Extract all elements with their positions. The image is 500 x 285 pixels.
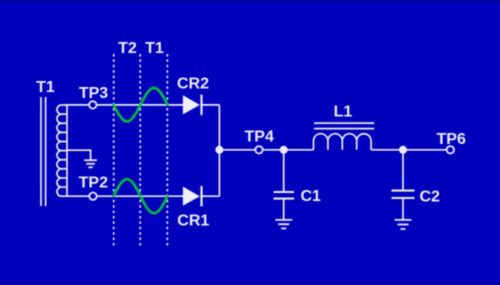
diode CR2 [183, 95, 202, 116]
bottom border edge [0, 284, 500, 285]
ground center tap [84, 160, 97, 167]
dashed line T2 window left [113, 54, 115, 246]
dashed line T2/T1 window middle [139, 54, 141, 246]
svg-text:TP6: TP6 [437, 131, 466, 148]
svg-text:C1: C1 [301, 188, 322, 205]
wire rectifier output bus [218, 105, 220, 196]
node TP3 circle [89, 101, 96, 108]
transformer T1 core [41, 97, 46, 206]
capacitor C1 plates [274, 192, 295, 199]
inductor L1 core bars [314, 123, 374, 129]
wire CR2 cathode to bus [201, 104, 219, 106]
svg-text:CR2: CR2 [177, 76, 209, 93]
node TP4 circle [255, 146, 262, 153]
ground C2 [395, 220, 412, 229]
node TP6 circle [447, 146, 454, 153]
wire C1 stem [283, 150, 285, 191]
transformer T1 secondary winding [57, 105, 67, 196]
svg-text:TP3: TP3 [79, 85, 108, 102]
top border edge [0, 0, 500, 1]
svg-text:TP4: TP4 [245, 129, 274, 146]
svg-text:T2: T2 [118, 40, 137, 57]
node TP2 circle [89, 193, 96, 200]
wire center tap [67, 150, 91, 159]
svg-text:L1: L1 [334, 103, 353, 120]
svg-text:CR1: CR1 [177, 213, 209, 230]
wire bottom secondary to CR1 [65, 195, 184, 197]
sine wave top (TP3) [114, 88, 168, 121]
svg-text:T1: T1 [36, 79, 55, 96]
svg-text:TP2: TP2 [79, 175, 108, 192]
svg-text:T1: T1 [145, 40, 164, 57]
wire bus to inductor [219, 149, 313, 151]
inductor L1 coil [314, 134, 372, 150]
capacitor C2 plates [392, 191, 415, 198]
sine wave bottom (TP2) [114, 179, 168, 213]
wire top secondary to CR2 [65, 104, 184, 106]
wire inductor to TP6 [371, 149, 447, 151]
ground C1 [275, 220, 292, 229]
junction dot rectifier output [215, 146, 223, 154]
junction node C2 tap [399, 146, 407, 154]
diode CR1 [183, 186, 202, 207]
junction node C1 tap [280, 146, 288, 154]
dashed line T1 window right [166, 54, 168, 246]
svg-text:C2: C2 [420, 188, 441, 205]
wire C2 stem [402, 150, 404, 190]
wire CR1 cathode to bus [201, 195, 219, 197]
